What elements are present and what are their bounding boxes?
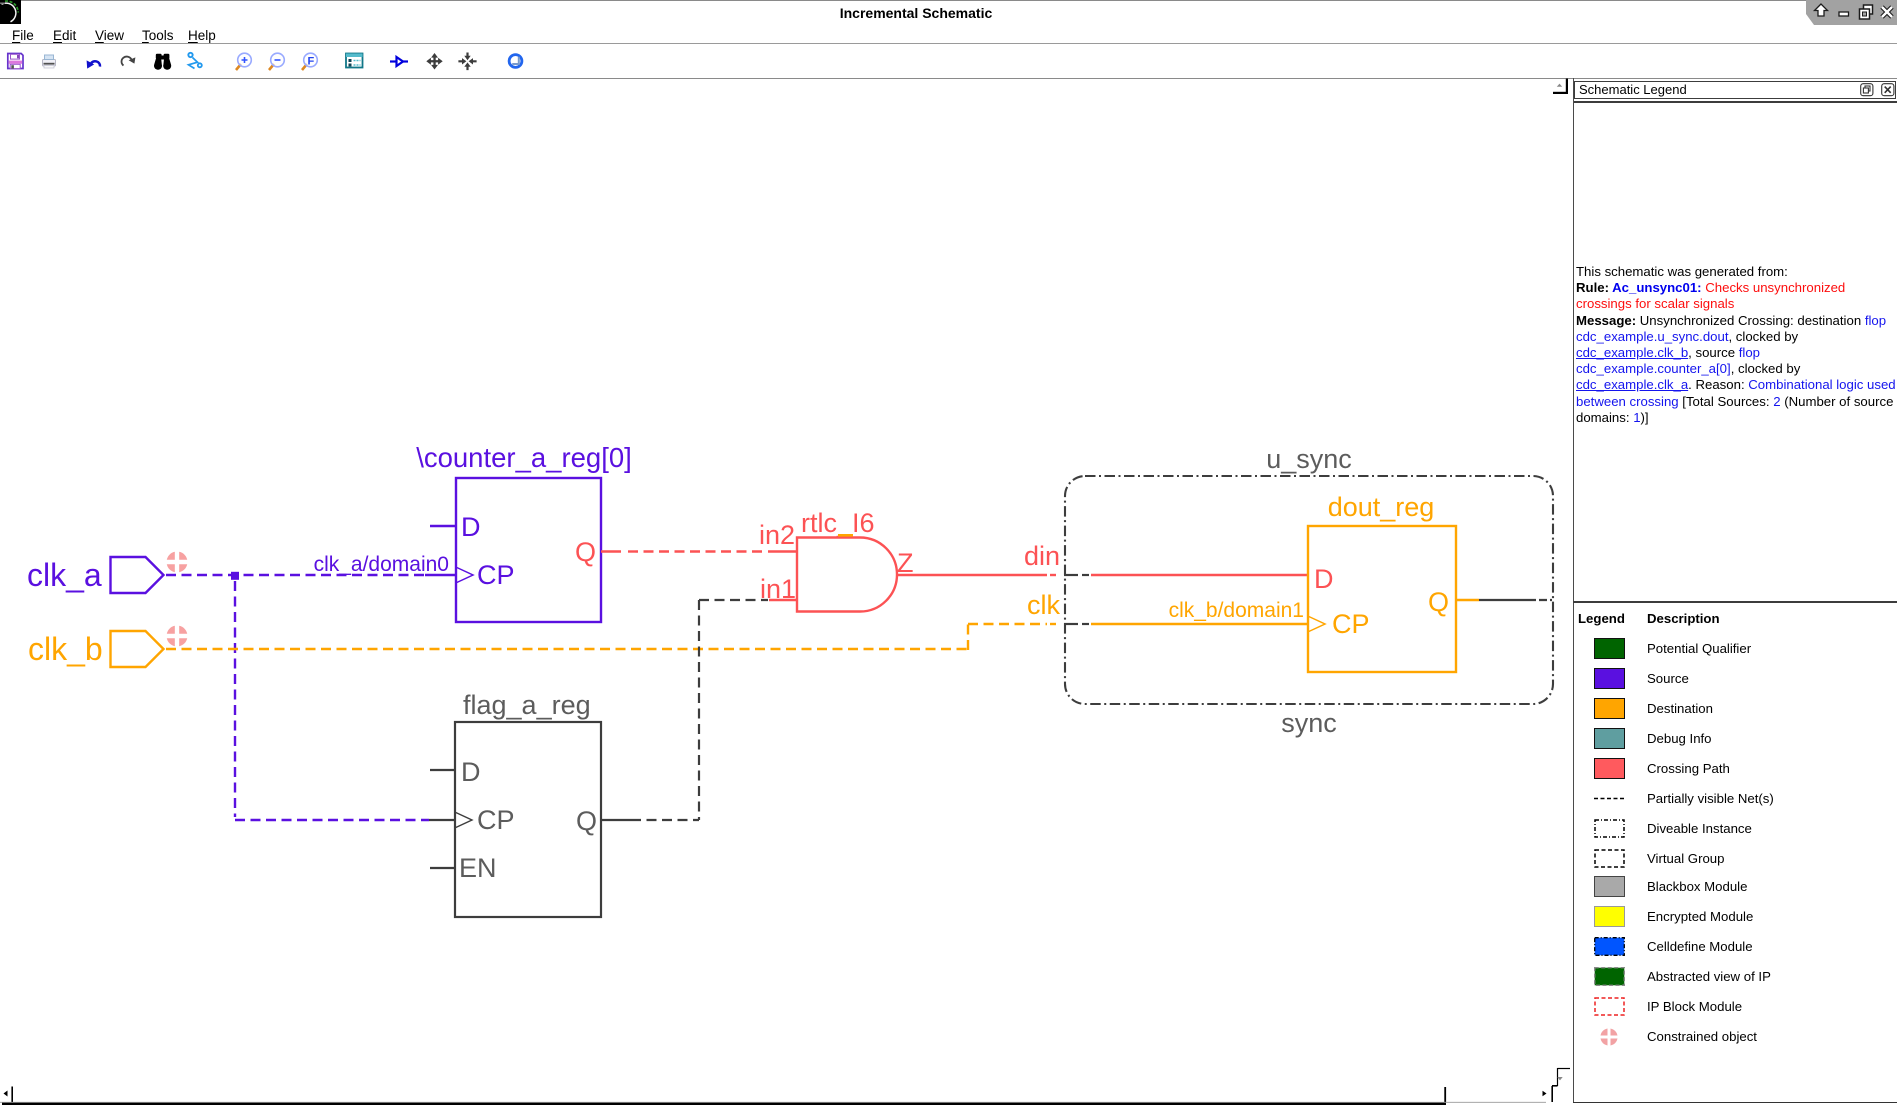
svg-text:Z: Z <box>897 548 914 578</box>
svg-text:Q: Q <box>576 806 597 836</box>
svg-text:u_sync: u_sync <box>1266 444 1352 474</box>
svg-text:clk_b: clk_b <box>28 631 103 667</box>
svg-text:clk_a/domain0: clk_a/domain0 <box>314 553 449 576</box>
svg-text:EN: EN <box>459 853 497 883</box>
svg-text:\counter_a_reg[0]: \counter_a_reg[0] <box>416 442 632 473</box>
svg-text:Q: Q <box>575 537 596 567</box>
svg-text:CP: CP <box>1332 609 1370 639</box>
svg-text:clk_b/domain1: clk_b/domain1 <box>1169 599 1304 622</box>
svg-text:D: D <box>461 512 481 542</box>
svg-text:flag_a_reg: flag_a_reg <box>463 690 591 720</box>
svg-text:D: D <box>461 757 481 787</box>
svg-text:clk: clk <box>1027 590 1060 620</box>
svg-text:in2: in2 <box>759 520 795 550</box>
svg-text:D: D <box>1314 564 1334 594</box>
svg-text:Q: Q <box>1428 587 1449 617</box>
svg-text:rtlc_I6: rtlc_I6 <box>801 508 875 538</box>
svg-text:dout_reg: dout_reg <box>1328 492 1435 522</box>
svg-text:clk_a: clk_a <box>27 557 102 593</box>
svg-text:din: din <box>1024 541 1060 571</box>
svg-text:CP: CP <box>477 560 515 590</box>
svg-text:sync: sync <box>1281 708 1337 738</box>
svg-text:CP: CP <box>477 805 515 835</box>
